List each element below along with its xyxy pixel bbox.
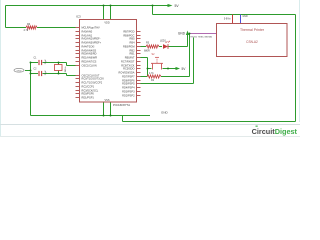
svg-text:VDD: VDD: [104, 21, 109, 24]
svg-text:RB7/PGD: RB7/PGD: [123, 30, 134, 34]
svg-text:RD1/PSP1: RD1/PSP1: [82, 96, 95, 100]
svg-text:VSS: VSS: [104, 99, 109, 102]
svg-text:RC4/SDI/SDA: RC4/SDI/SDA: [119, 71, 135, 75]
svg-text:RB0/INT: RB0/INT: [125, 56, 135, 60]
svg-text:RC0/T1OSO/T1CKI: RC0/T1OSO/T1CKI: [82, 77, 105, 81]
svg-text:8MHz: 8MHz: [65, 67, 67, 73]
svg-text:RD3/PSP3: RD3/PSP3: [122, 90, 135, 94]
svg-text:RD5/PSP5: RD5/PSP5: [122, 82, 135, 86]
svg-text:CSN-A2: CSN-A2: [246, 40, 258, 44]
svg-text:RB1: RB1: [130, 52, 136, 56]
svg-text:RD0/PSP0: RD0/PSP0: [82, 92, 95, 96]
svg-text:GND: GND: [178, 32, 186, 36]
svg-text:RE1/AN6/WR: RE1/AN6/WR: [82, 56, 98, 60]
svg-text:GND: GND: [161, 111, 169, 115]
svg-text:4.7k: 4.7k: [24, 29, 29, 32]
svg-text:RA0/AN0: RA0/AN0: [82, 30, 93, 34]
svg-text:RB3/PGM: RB3/PGM: [123, 45, 134, 49]
svg-text:22pF: 22pF: [45, 59, 47, 65]
svg-text:Thermal Printer: Thermal Printer: [240, 28, 265, 32]
svg-text:RD2/PSP2: RD2/PSP2: [122, 94, 135, 98]
svg-text:GND: GND: [243, 16, 248, 18]
svg-text:RC1/T1OSI/CCP2: RC1/T1OSI/CCP2: [82, 81, 103, 85]
svg-text:PIC16F877A: PIC16F877A: [113, 103, 130, 107]
svg-text:LED1: LED1: [160, 40, 167, 43]
svg-text:4.7k: 4.7k: [149, 72, 154, 75]
svg-text:RA2/AN2/VREF-: RA2/AN2/VREF-: [82, 37, 101, 41]
svg-text:IC3: IC3: [76, 15, 81, 19]
svg-text:CircuitDigest: CircuitDigest: [252, 127, 298, 136]
svg-text:MCLR/Vpp/THV: MCLR/Vpp/THV: [82, 26, 101, 30]
svg-text:5V: 5V: [175, 4, 180, 8]
svg-text:RD7/PSP7: RD7/PSP7: [122, 75, 135, 79]
svg-text:22pF: 22pF: [45, 70, 47, 76]
svg-text:680R: 680R: [144, 50, 150, 53]
svg-text:RA3/AN3/VREF+: RA3/AN3/VREF+: [82, 41, 102, 45]
svg-text:RE0/AN5/RD: RE0/AN5/RD: [82, 52, 97, 56]
svg-text:RC5/SDO: RC5/SDO: [123, 67, 134, 71]
svg-text:RD4/PSP4: RD4/PSP4: [122, 86, 135, 90]
svg-text:RE2/AN7/CS: RE2/AN7/CS: [82, 60, 97, 64]
svg-text:OSC1/CLKIN: OSC1/CLKIN: [82, 64, 97, 68]
svg-text:RC7/RX/DT: RC7/RX/DT: [121, 60, 135, 64]
svg-text:GND: GND: [17, 70, 22, 72]
svg-text:RA4/T0CKI: RA4/T0CKI: [82, 45, 95, 49]
svg-text:RX\Grn TX\Blu GND\Blk: RX\Grn TX\Blu GND\Blk: [191, 36, 213, 38]
svg-text:RB5: RB5: [130, 37, 136, 41]
svg-text:RB4: RB4: [130, 41, 136, 45]
svg-text:RC2/CCP1: RC2/CCP1: [82, 85, 95, 89]
svg-text:5-9Vin: 5-9Vin: [224, 18, 231, 20]
